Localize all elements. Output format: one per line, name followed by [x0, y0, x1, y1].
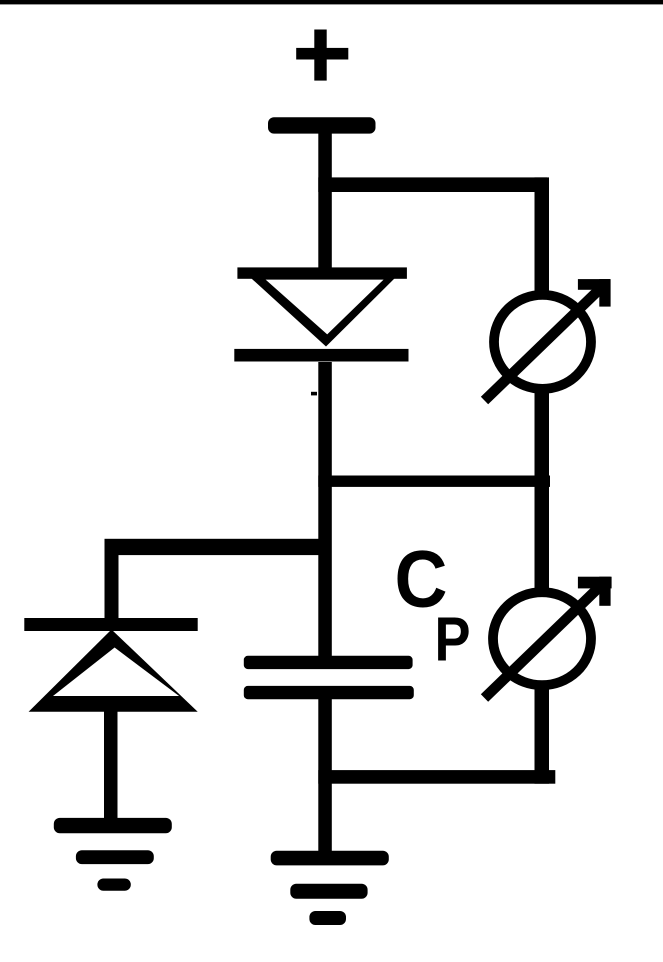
diode D2 (cathode up) triangle	[29, 630, 198, 712]
variable element 2 arrow head	[578, 577, 612, 606]
variable element 2 arrow diagonal	[485, 582, 605, 698]
variable element 1 arrow head	[578, 279, 611, 307]
wire: variable element 2 down to bottom wire	[535, 685, 550, 784]
variable element 2 circle	[493, 592, 591, 685]
ground (center)	[271, 851, 389, 925]
wire: capacitor down to ground	[318, 699, 332, 855]
diode D1 anode bar	[237, 267, 407, 278]
ground (left)	[54, 818, 172, 891]
diode D2 cathode bar	[24, 618, 197, 631]
capacitor CP top plate	[244, 656, 413, 669]
capacitor CP bottom plate	[244, 686, 414, 699]
diode D1 cathode bar	[234, 349, 408, 362]
diode D1 (cathode down) triangle	[240, 268, 405, 347]
node + (positive supply terminal label)	[296, 30, 348, 81]
wire: top node to right branch	[318, 177, 547, 192]
wire: terminal bar down to diode D1	[318, 133, 332, 280]
wire: right branch down to variable element 1	[535, 177, 550, 294]
wire: left branch down to diode D2	[105, 545, 119, 620]
wire: mid junction horizontal	[318, 476, 550, 487]
stray mark	[311, 392, 317, 396]
wire: variable element 1 down to mid junction	[535, 389, 550, 591]
wire: left branch horizontal to diode D2	[105, 539, 332, 555]
label CP	[395, 535, 471, 675]
svg-text:P: P	[435, 605, 471, 675]
variable element 1 arrow diagonal	[485, 285, 605, 401]
variable element 1 circle	[494, 295, 591, 389]
positive terminal bar	[268, 117, 376, 133]
wire: bottom horizontal	[318, 770, 555, 784]
wire: diode D2 down to ground	[104, 708, 118, 820]
wire: D1 cathode down to capacitor CP	[318, 362, 332, 658]
